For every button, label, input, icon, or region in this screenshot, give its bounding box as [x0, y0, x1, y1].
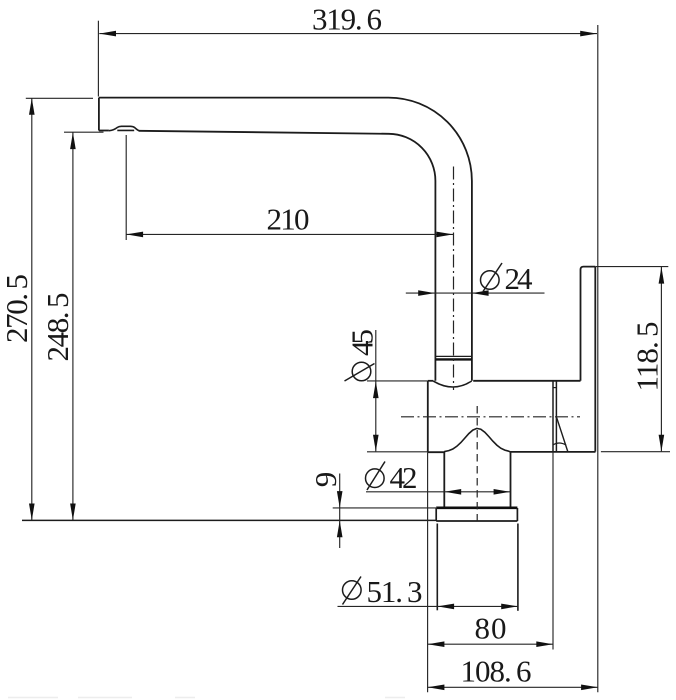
body bottom right + housing bottom — [511, 451, 596, 453]
dim 319.6 — [97, 21, 99, 97]
108.6 — [428, 685, 445, 691]
body right end double lines — [552, 381, 554, 452]
svg-text:118. 5: 118. 5 — [630, 322, 665, 392]
centerline: body horizontal (dash-dot) — [401, 416, 580, 418]
body bottom-left segment — [428, 451, 445, 453]
svg-text:319. 6: 319. 6 — [312, 2, 382, 37]
svg-text:24: 24 — [505, 261, 534, 296]
319.6 — [99, 31, 116, 37]
escutcheon plate — [436, 506, 517, 509]
svg-text:108. 6: 108. 6 — [461, 654, 532, 689]
dia24 symbol — [481, 271, 500, 290]
dim 9 — [333, 507, 436, 509]
dia42 symbol — [366, 469, 385, 488]
shank walls — [436, 524, 438, 611]
80 — [428, 641, 445, 647]
centerline: vertical pipe (dash-dot) — [453, 167, 455, 391]
valve dome (tent arch) — [444, 428, 510, 452]
body top line — [428, 380, 433, 382]
svg-text:51. 3: 51. 3 — [367, 574, 423, 609]
outlet cylinder walls — [443, 452, 445, 507]
dim 80 — [427, 453, 429, 693]
svg-text:45: 45 — [345, 329, 380, 356]
210 — [126, 232, 143, 238]
svg-text:248. 5: 248. 5 — [40, 293, 75, 362]
svg-text:9: 9 — [308, 472, 343, 488]
dim 108.6 — [428, 686, 598, 688]
248.5 — [70, 132, 76, 149]
countertop line — [22, 519, 436, 521]
svg-text:42: 42 — [390, 460, 418, 495]
9 (outside pointing toward plate) — [337, 491, 343, 508]
dim dia42 — [366, 491, 510, 493]
small arc detail near lever — [553, 443, 566, 445]
dia24 (pointing inward at pipe walls) — [418, 290, 435, 296]
dia51.3 — [437, 604, 454, 610]
dim dia24 — [406, 292, 545, 294]
dia45 — [373, 381, 379, 398]
dim dia45 — [367, 380, 428, 382]
faint table edge remnants at bottom — [8, 697, 405, 699]
dim dia51.3 — [338, 605, 519, 607]
svg-text:270. 5: 270. 5 — [0, 274, 34, 343]
tick between double lines — [553, 387, 556, 389]
svg-text:80: 80 — [475, 611, 507, 646]
270.5 — [29, 98, 35, 115]
pipe joint lines — [435, 355, 472, 357]
spout outline (top horizontal run, outer bend, tip) — [99, 98, 472, 381]
aerator bump on spout underside — [109, 126, 139, 131]
118.5 — [659, 267, 665, 284]
lever diagonal — [556, 417, 567, 452]
centerline: outlet vertical (dashed) — [476, 406, 478, 521]
dim 270.5 — [26, 97, 93, 99]
dia42 (inside pointing outward) — [445, 489, 462, 495]
dia45 symbol (rotated) — [352, 362, 371, 381]
handle housing — [581, 267, 596, 381]
dim 248.5 — [64, 131, 104, 133]
body left edge — [427, 381, 429, 452]
dim 210 — [125, 135, 127, 240]
dia51.3 symbol — [343, 581, 362, 600]
dim 118.5 — [596, 266, 669, 268]
svg-text:210: 210 — [267, 202, 310, 237]
pipe-body intersection dip arc — [433, 381, 472, 387]
